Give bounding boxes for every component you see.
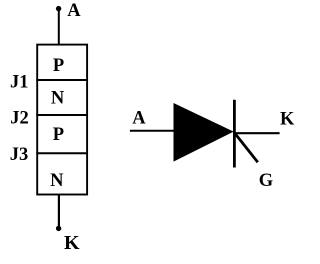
svg-text:A: A [132, 109, 146, 129]
svg-text:K: K [280, 109, 295, 129]
svg-text:J1: J1 [10, 72, 29, 92]
svg-text:N: N [50, 171, 64, 191]
svg-text:J2: J2 [10, 109, 29, 129]
svg-text:G: G [259, 171, 273, 191]
svg-text:N: N [51, 88, 65, 108]
svg-text:P: P [53, 125, 64, 145]
svg-text:J3: J3 [10, 145, 29, 165]
svg-text:A: A [67, 1, 81, 21]
svg-text:K: K [64, 232, 80, 254]
svg-text:P: P [53, 56, 64, 76]
